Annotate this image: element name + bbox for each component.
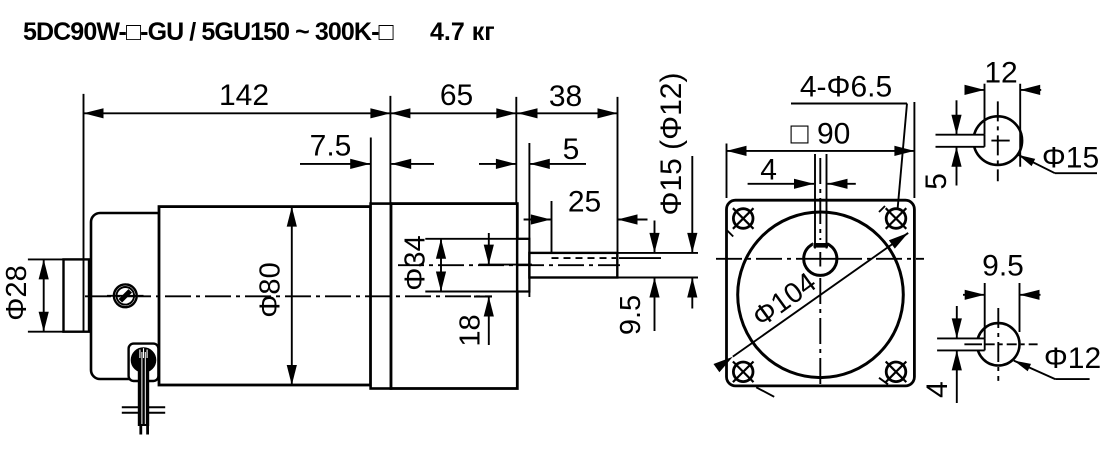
svg-text:Φ34: Φ34	[400, 235, 432, 290]
svg-text:38: 38	[549, 80, 582, 113]
svg-text:18: 18	[455, 314, 487, 346]
svg-text:4: 4	[760, 154, 777, 187]
svg-text:12: 12	[984, 56, 1017, 89]
svg-text:7.5: 7.5	[310, 130, 352, 163]
svg-text:9.5: 9.5	[615, 295, 647, 335]
svg-text:4-Φ6.5: 4-Φ6.5	[800, 71, 892, 104]
svg-text:Φ12: Φ12	[1044, 342, 1100, 375]
svg-text:5: 5	[920, 173, 953, 190]
svg-text:4: 4	[921, 381, 954, 398]
svg-text:9.5: 9.5	[982, 250, 1024, 283]
svg-text:Φ15: Φ15	[1042, 141, 1099, 174]
svg-text:Φ80: Φ80	[255, 262, 287, 317]
svg-text:□ 90: □ 90	[790, 117, 850, 150]
svg-text:Φ15 (Φ12): Φ15 (Φ12)	[655, 73, 688, 216]
svg-text:5: 5	[563, 133, 580, 166]
svg-text:65: 65	[440, 79, 473, 112]
svg-text:25: 25	[568, 186, 601, 219]
svg-text:Φ28: Φ28	[1, 265, 33, 320]
svg-text:142: 142	[219, 79, 269, 112]
